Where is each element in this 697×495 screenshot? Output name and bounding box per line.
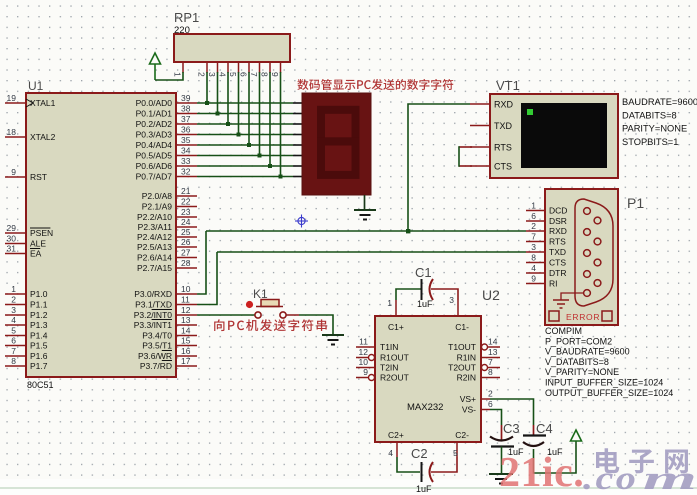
svg-text:T2IN: T2IN [380, 363, 398, 373]
svg-text:.co: .co [583, 459, 638, 495]
U1 pin 28 P2.7/A15 [176, 267, 197, 269]
svg-text:14: 14 [488, 337, 498, 347]
svg-text:3: 3 [449, 295, 454, 305]
U1 pin 21 P2.0/A8 [176, 195, 197, 197]
svg-text:RTS: RTS [494, 143, 512, 153]
U1 XTAL1 clock mark [26, 99, 33, 107]
svg-text:3: 3 [531, 242, 536, 252]
svg-text:6: 6 [531, 211, 536, 221]
svg-text:6: 6 [488, 399, 493, 409]
junction dot P0.3/RP1 [237, 133, 241, 137]
svg-text:9: 9 [11, 167, 16, 177]
svg-text:PARITY=NONE: PARITY=NONE [622, 124, 687, 134]
wire P0.5 to display pin 6 [197, 155, 293, 157]
wire K1 to ground [286, 314, 299, 316]
watermark .com [583, 459, 697, 495]
svg-text:P1.7: P1.7 [30, 361, 48, 371]
svg-text:11: 11 [181, 295, 190, 305]
K1 state dot (red) [246, 301, 253, 308]
U2 pin 12 R1OUT [356, 357, 369, 359]
C1 plates [421, 279, 423, 300]
U1 pin 2 P1.1 [5, 304, 26, 306]
svg-text:P1.3: P1.3 [30, 320, 48, 330]
U1 pin 22 P2.1/A9 [176, 206, 197, 208]
junction dot P0.4/RP1 [247, 143, 251, 147]
wire VT1 RXD tap down to RXD net [408, 104, 470, 231]
svg-text:C2-: C2- [455, 430, 469, 440]
svg-text:C2: C2 [411, 446, 428, 461]
svg-text:P2.0/A8: P2.0/A8 [142, 191, 173, 201]
P1 pin 3 TXD [526, 251, 545, 253]
svg-text:CTS: CTS [549, 258, 566, 268]
svg-text:P3.3/INT1: P3.3/INT1 [134, 320, 173, 330]
svg-text:31: 31 [7, 244, 17, 254]
svg-text:36: 36 [181, 125, 191, 135]
svg-text:P_PORT=COM2: P_PORT=COM2 [545, 336, 612, 346]
VT1 screen cursor [527, 109, 533, 115]
svg-text:1: 1 [173, 72, 183, 77]
svg-text:CTS: CTS [494, 162, 512, 172]
svg-text:P0.1/AD1: P0.1/AD1 [136, 109, 173, 119]
svg-text:R1OUT: R1OUT [380, 353, 409, 363]
wire P0.1 to display pin 2 [197, 113, 293, 115]
svg-text:33: 33 [181, 156, 191, 166]
svg-text:1: 1 [387, 298, 392, 308]
U1 pin 17 P3.7/RD [176, 365, 197, 367]
svg-text:DSR: DSR [549, 216, 567, 226]
svg-text:V_BAUDRATE=9600: V_BAUDRATE=9600 [545, 347, 630, 357]
wire RP1 pin 2 down to P0.0 net [206, 72, 208, 103]
svg-text:19: 19 [7, 93, 17, 103]
svg-text:15: 15 [181, 336, 191, 346]
U1 pin 6 P1.5 [5, 345, 26, 347]
svg-text:5: 5 [453, 448, 458, 458]
U2 pin 4 C2+ stub [396, 442, 398, 457]
RP1 pin 8 [269, 62, 271, 73]
RP1 pin 2 [206, 62, 208, 73]
svg-text:11: 11 [359, 337, 368, 347]
svg-text:6: 6 [11, 336, 16, 346]
U1 pin 30 ALE [5, 243, 26, 245]
svg-text:P2.3/A11: P2.3/A11 [138, 222, 173, 232]
display pin stub 1 [293, 102, 302, 104]
svg-text:P1.0: P1.0 [30, 289, 48, 299]
svg-text:21ic.: 21ic. [499, 450, 584, 495]
svg-text:STOPBITS=1: STOPBITS=1 [622, 137, 678, 147]
P1 pin 2 RXD [526, 230, 545, 232]
svg-text:VS-: VS- [462, 405, 476, 415]
svg-text:2: 2 [531, 221, 536, 231]
ground for K1 [322, 334, 344, 336]
svg-text:10: 10 [359, 357, 369, 367]
svg-text:OUTPUT_BUFFER_SIZE=1024: OUTPUT_BUFFER_SIZE=1024 [545, 388, 673, 398]
junction dot P0.0/RP1 [205, 101, 209, 105]
COM port P1 body [545, 189, 618, 325]
U1 pin 12 P3.2/INT0 [176, 314, 197, 316]
U1 pin 38 P0.1/AD1 [176, 113, 197, 115]
svg-text:P3.6/WR: P3.6/WR [138, 351, 172, 361]
U1 pin 13 P3.3/INT1 [176, 324, 197, 326]
svg-text:8: 8 [488, 367, 493, 377]
watermark dian zi wang [596, 448, 688, 473]
svg-text:P0.2/AD2: P0.2/AD2 [136, 119, 173, 129]
VT1 pin CTS [470, 165, 490, 167]
wire power arrow to RP1 pin1 [155, 72, 183, 80]
U1 pin 11 P3.1/TXD [176, 304, 197, 306]
svg-text:1: 1 [531, 201, 536, 211]
svg-text:7: 7 [531, 232, 536, 242]
U1 pin 14 P3.4/T0 [176, 335, 197, 337]
wire C2 right [431, 457, 457, 472]
svg-text:DTR: DTR [549, 268, 566, 278]
svg-text:5: 5 [11, 326, 16, 336]
watermark 21ic [499, 450, 584, 495]
svg-text:18: 18 [7, 127, 17, 137]
svg-text:12: 12 [359, 347, 369, 357]
U1 pin 37 P0.2/AD2 [176, 123, 197, 125]
U2 pin 5 C2- stub [456, 442, 458, 457]
wire RP1 pin 6 down to P0.4 net [248, 72, 250, 145]
P1 ERROR LED squares [549, 311, 559, 321]
U1 pin 35 P0.4/AD4 [176, 144, 197, 146]
svg-text:C1+: C1+ [388, 322, 404, 332]
P1 DB9 holes [584, 208, 591, 215]
svg-text:7: 7 [249, 72, 259, 77]
svg-text:30: 30 [7, 234, 17, 244]
svg-text:P0.0/AD0: P0.0/AD0 [136, 98, 173, 108]
svg-text:1: 1 [11, 284, 16, 294]
junction dot P0.7/RP1 [279, 175, 283, 179]
svg-text:P2.5/A13: P2.5/A13 [137, 242, 172, 252]
wire RXD net horizontal to P1 pin2 [206, 230, 526, 232]
svg-text:4: 4 [11, 315, 16, 325]
svg-text:P3.5/T1: P3.5/T1 [142, 341, 172, 351]
svg-text:8: 8 [11, 356, 16, 366]
U1 pin 7 P1.6 [5, 355, 26, 357]
svg-text:6: 6 [239, 72, 249, 77]
svg-text:U2: U2 [482, 287, 500, 303]
junction dot P0.2/RP1 [226, 122, 230, 126]
svg-text:COMPIM: COMPIM [545, 326, 582, 336]
wire TXD net horizontal to P1 pin3 [217, 251, 526, 253]
svg-text:12: 12 [181, 305, 191, 315]
svg-text:P0.5/AD5: P0.5/AD5 [136, 151, 173, 161]
svg-text:U1: U1 [28, 79, 44, 93]
junction dot P0.5/RP1 [258, 154, 262, 158]
U1 pin 24 P2.3/A11 [176, 226, 197, 228]
svg-text:P3.1/TXD: P3.1/TXD [135, 300, 172, 310]
U1 pin 32 P0.7/AD7 [176, 176, 197, 178]
wire C2 left [397, 457, 420, 472]
origin marker crosshair [295, 215, 308, 228]
P1 internal ground [561, 293, 583, 300]
svg-text:DATABITS=8: DATABITS=8 [622, 110, 677, 120]
ic U2 MAX232 body [375, 316, 481, 442]
svg-text:32: 32 [181, 167, 191, 177]
annotation: send string to PC [214, 319, 327, 331]
U2 pin 3 C1- stub [457, 300, 459, 316]
C2 plates [421, 462, 423, 482]
svg-text:TXD: TXD [494, 121, 513, 131]
svg-text:C2+: C2+ [388, 430, 404, 440]
U1 pin 31 EA [5, 253, 26, 255]
P1 pin 9 RI [526, 283, 545, 285]
U1 pin 18 XTAL2 [5, 136, 26, 138]
RP1 pin 3 [217, 62, 219, 73]
svg-text:80C51: 80C51 [27, 380, 54, 390]
svg-text:RST: RST [30, 172, 47, 182]
RP1 pin 5 [238, 62, 240, 73]
svg-text:P2.7/A15: P2.7/A15 [137, 263, 172, 273]
svg-text:VT1: VT1 [496, 78, 520, 93]
U1 pin 15 P3.5/T1 [176, 345, 197, 347]
svg-text:RI: RI [549, 279, 558, 289]
svg-text:8: 8 [260, 72, 270, 77]
svg-text:35: 35 [181, 135, 191, 145]
wire RP1 pin 8 down to P0.6 net [269, 72, 271, 166]
svg-text:16: 16 [181, 346, 191, 356]
U2 pin 1 C1+ stub [395, 300, 397, 316]
svg-text:P2.4/A12: P2.4/A12 [137, 232, 172, 242]
RP1 pin 4 [227, 62, 229, 73]
P1 pin 6 DSR [526, 220, 545, 222]
svg-text:P1: P1 [627, 195, 644, 211]
P1 pin 4 DTR [526, 272, 545, 274]
svg-text:C1-: C1- [455, 322, 469, 332]
svg-text:TXD: TXD [549, 247, 566, 257]
svg-text:R2IN: R2IN [457, 373, 476, 383]
svg-text:1uF: 1uF [416, 484, 432, 494]
svg-text:P2.2/A10: P2.2/A10 [137, 212, 172, 222]
wire RP1 pin 5 down to P0.3 net [238, 72, 240, 135]
display pin stub 7 [293, 165, 302, 167]
svg-text:29: 29 [7, 223, 17, 233]
ground below display [354, 209, 376, 211]
svg-text:4: 4 [388, 448, 393, 458]
U2 pin 14 T1OUT [487, 346, 500, 348]
svg-text:P2.6/A14: P2.6/A14 [137, 253, 172, 263]
U2 pin 6 VS- [481, 409, 490, 411]
U1 pin 25 P2.4/A12 [176, 236, 197, 238]
wire P0.0 to display pin 1 [197, 102, 293, 104]
svg-text:C1: C1 [415, 265, 432, 280]
svg-text:RP1: RP1 [174, 10, 199, 25]
wire U1 P3.1/TXD up [197, 252, 217, 305]
U1 pin 3 P1.2 [5, 314, 26, 316]
svg-text:T2OUT: T2OUT [448, 363, 476, 373]
svg-text:37: 37 [181, 114, 191, 124]
svg-text:P1.6: P1.6 [30, 351, 48, 361]
wire RP1 pin 4 down to P0.2 net [227, 72, 229, 124]
svg-text:P0.7/AD7: P0.7/AD7 [136, 172, 173, 182]
U1 pin 23 P2.2/A10 [176, 216, 197, 218]
svg-text:8: 8 [531, 253, 536, 263]
wire RP1 pin 9 down to P0.7 net [280, 72, 282, 177]
svg-text:P0.6/AD6: P0.6/AD6 [136, 161, 173, 171]
svg-text:ERROR: ERROR [566, 312, 600, 322]
svg-text:P3.2/INT0: P3.2/INT0 [134, 310, 173, 320]
U2 pin 13 R1IN [481, 357, 500, 359]
svg-text:m: m [643, 460, 697, 495]
U1 pin 34 P0.5/AD5 [176, 155, 197, 157]
U2 pin 10 T2IN [356, 367, 375, 369]
wire U1 P3.2/INT0 to K1 [197, 314, 255, 316]
wire P0.7 to display pin 8 [197, 176, 293, 178]
svg-text:220: 220 [174, 25, 190, 36]
7-segment display body [302, 93, 371, 195]
wire P0.3 to display pin 4 [197, 134, 293, 136]
svg-text:RTS: RTS [549, 237, 566, 247]
svg-text:R2OUT: R2OUT [380, 373, 409, 383]
svg-text:INPUT_BUFFER_SIZE=1024: INPUT_BUFFER_SIZE=1024 [545, 378, 663, 388]
svg-text:PSEN: PSEN [30, 228, 53, 238]
wire C4 to power arrow [534, 441, 577, 473]
wire P0.6 to display pin 7 [197, 165, 293, 167]
display pin stub 3 [293, 123, 302, 125]
svg-text:XTAL2: XTAL2 [30, 132, 56, 142]
svg-text:17: 17 [181, 356, 191, 366]
RP1 pin 1 [182, 62, 184, 73]
display common pin [364, 195, 366, 210]
power symbol (up arrow) for RP1 pin 1 [150, 53, 161, 64]
svg-text:27: 27 [181, 248, 191, 258]
svg-text:MAX232: MAX232 [407, 402, 443, 413]
display pin stub 8 [293, 176, 302, 178]
svg-text:P3.4/T0: P3.4/T0 [142, 331, 172, 341]
U1 pin 10 P3.0/RXD [176, 293, 197, 295]
svg-text:P0.3/AD3: P0.3/AD3 [136, 130, 173, 140]
U2 pin 8 R2IN [481, 377, 500, 379]
U1 pin 39 P0.0/AD0 [176, 102, 197, 104]
svg-text:P3.0/RXD: P3.0/RXD [134, 289, 172, 299]
VT1 pin RXD [470, 103, 490, 105]
svg-text:2: 2 [11, 295, 16, 305]
svg-text:9: 9 [270, 72, 280, 77]
svg-text:9: 9 [531, 274, 536, 284]
U1 pin 27 P2.6/A14 [176, 257, 197, 259]
P1 pin 7 RTS [526, 241, 545, 243]
svg-text:T1OUT: T1OUT [448, 342, 476, 352]
wire RP1 pin 3 down to P0.1 net [217, 72, 219, 114]
U1 pin 19 XTAL1 [5, 102, 26, 104]
VT1 pin RTS [470, 146, 490, 148]
svg-text:P0.4/AD4: P0.4/AD4 [136, 140, 173, 150]
wire U1 P3.0/RXD up [197, 231, 206, 294]
svg-text:9: 9 [363, 367, 368, 377]
RP1 pin 9 [280, 62, 282, 73]
svg-text:4: 4 [531, 263, 536, 273]
svg-text:5: 5 [228, 72, 238, 77]
P1 pin 8 CTS [526, 262, 545, 264]
ic U1 80C51 body [26, 93, 176, 377]
svg-text:23: 23 [181, 207, 191, 217]
svg-text:22: 22 [181, 197, 191, 207]
U2 pin 11 T1IN [356, 346, 375, 348]
wire U2 VS- to C3 [490, 410, 502, 426]
ground for C3 [489, 473, 513, 475]
svg-text:VS+: VS+ [460, 394, 476, 404]
U1 pin 36 P0.3/AD3 [176, 134, 197, 136]
svg-text:1uF: 1uF [417, 299, 433, 309]
wire C3 to ground [501, 447, 503, 474]
svg-text:C4: C4 [536, 421, 553, 436]
display pin stub 5 [293, 144, 302, 146]
svg-text:RXD: RXD [549, 226, 567, 236]
7-segment digit 8 segments [321, 110, 356, 175]
svg-text:10: 10 [181, 284, 191, 294]
U2 pin 2 VS+ [481, 398, 490, 400]
svg-text:25: 25 [181, 227, 191, 237]
display pin stub 4 [293, 134, 302, 136]
U1 pin 26 P2.5/A13 [176, 246, 197, 248]
svg-text:14: 14 [181, 326, 191, 336]
svg-text:34: 34 [181, 146, 191, 156]
resistor pack RP1 body [174, 34, 290, 62]
svg-text:P1.5: P1.5 [30, 341, 48, 351]
svg-text:2: 2 [488, 389, 493, 399]
svg-text:3: 3 [11, 305, 16, 315]
P1 DB9 connector outline [575, 199, 613, 306]
U1 pin 8 P1.7 [5, 365, 26, 367]
virtual terminal VT1 body [490, 94, 618, 178]
wire VT1 RTS-CTS loopback [459, 146, 472, 148]
svg-text:28: 28 [181, 258, 191, 268]
VT1 screen [521, 103, 607, 168]
svg-text:24: 24 [181, 217, 191, 227]
U2 pin 9 R2OUT [356, 377, 369, 379]
svg-text:DCD: DCD [549, 206, 567, 216]
svg-text:38: 38 [181, 104, 191, 114]
wire P0.2 to display pin 3 [197, 123, 293, 125]
svg-text:T1IN: T1IN [380, 342, 398, 352]
svg-text:EA: EA [30, 249, 42, 259]
svg-text:P1.4: P1.4 [30, 331, 48, 341]
svg-text:21: 21 [181, 186, 191, 196]
svg-text:P1.2: P1.2 [30, 310, 48, 320]
svg-text:P3.7/RD: P3.7/RD [140, 361, 172, 371]
U1 pin 16 P3.6/WR [176, 355, 197, 357]
junction dot P0.6/RP1 [268, 164, 272, 168]
RP1 pin 6 [248, 62, 250, 73]
U1 pin 33 P0.6/AD6 [176, 165, 197, 167]
svg-text:13: 13 [488, 347, 498, 357]
svg-text:26: 26 [181, 237, 191, 247]
U2 pin 7 T2OUT [487, 367, 500, 369]
U1 pin 4 P1.3 [5, 324, 26, 326]
U1 pin 5 P1.4 [5, 335, 26, 337]
VT1 pin TXD [470, 125, 490, 127]
U1 pin 9 RST [5, 176, 26, 178]
svg-text:ALE: ALE [30, 239, 46, 249]
power symbol (up arrow) near C4 [571, 430, 582, 441]
wire P0.4 to display pin 5 [197, 144, 293, 146]
display pin stub 2 [293, 113, 302, 115]
svg-text:4: 4 [218, 72, 228, 77]
RP1 pin 7 [259, 62, 261, 73]
U1 pin 29 PSEN [5, 232, 26, 234]
U1 pin 1 P1.0 [5, 293, 26, 295]
junction dot P0.1/RP1 [216, 112, 220, 116]
wire U2 VS+ to C4 [490, 399, 534, 425]
svg-text:C3: C3 [503, 421, 520, 436]
svg-text:P2.1/A9: P2.1/A9 [142, 202, 173, 212]
svg-text:7: 7 [488, 357, 493, 367]
display pin stub 6 [293, 155, 302, 157]
wire RP1 pin 7 down to P0.5 net [259, 72, 261, 156]
wire C1 left [396, 289, 421, 300]
svg-text:3: 3 [207, 72, 217, 77]
svg-text:7: 7 [11, 346, 16, 356]
